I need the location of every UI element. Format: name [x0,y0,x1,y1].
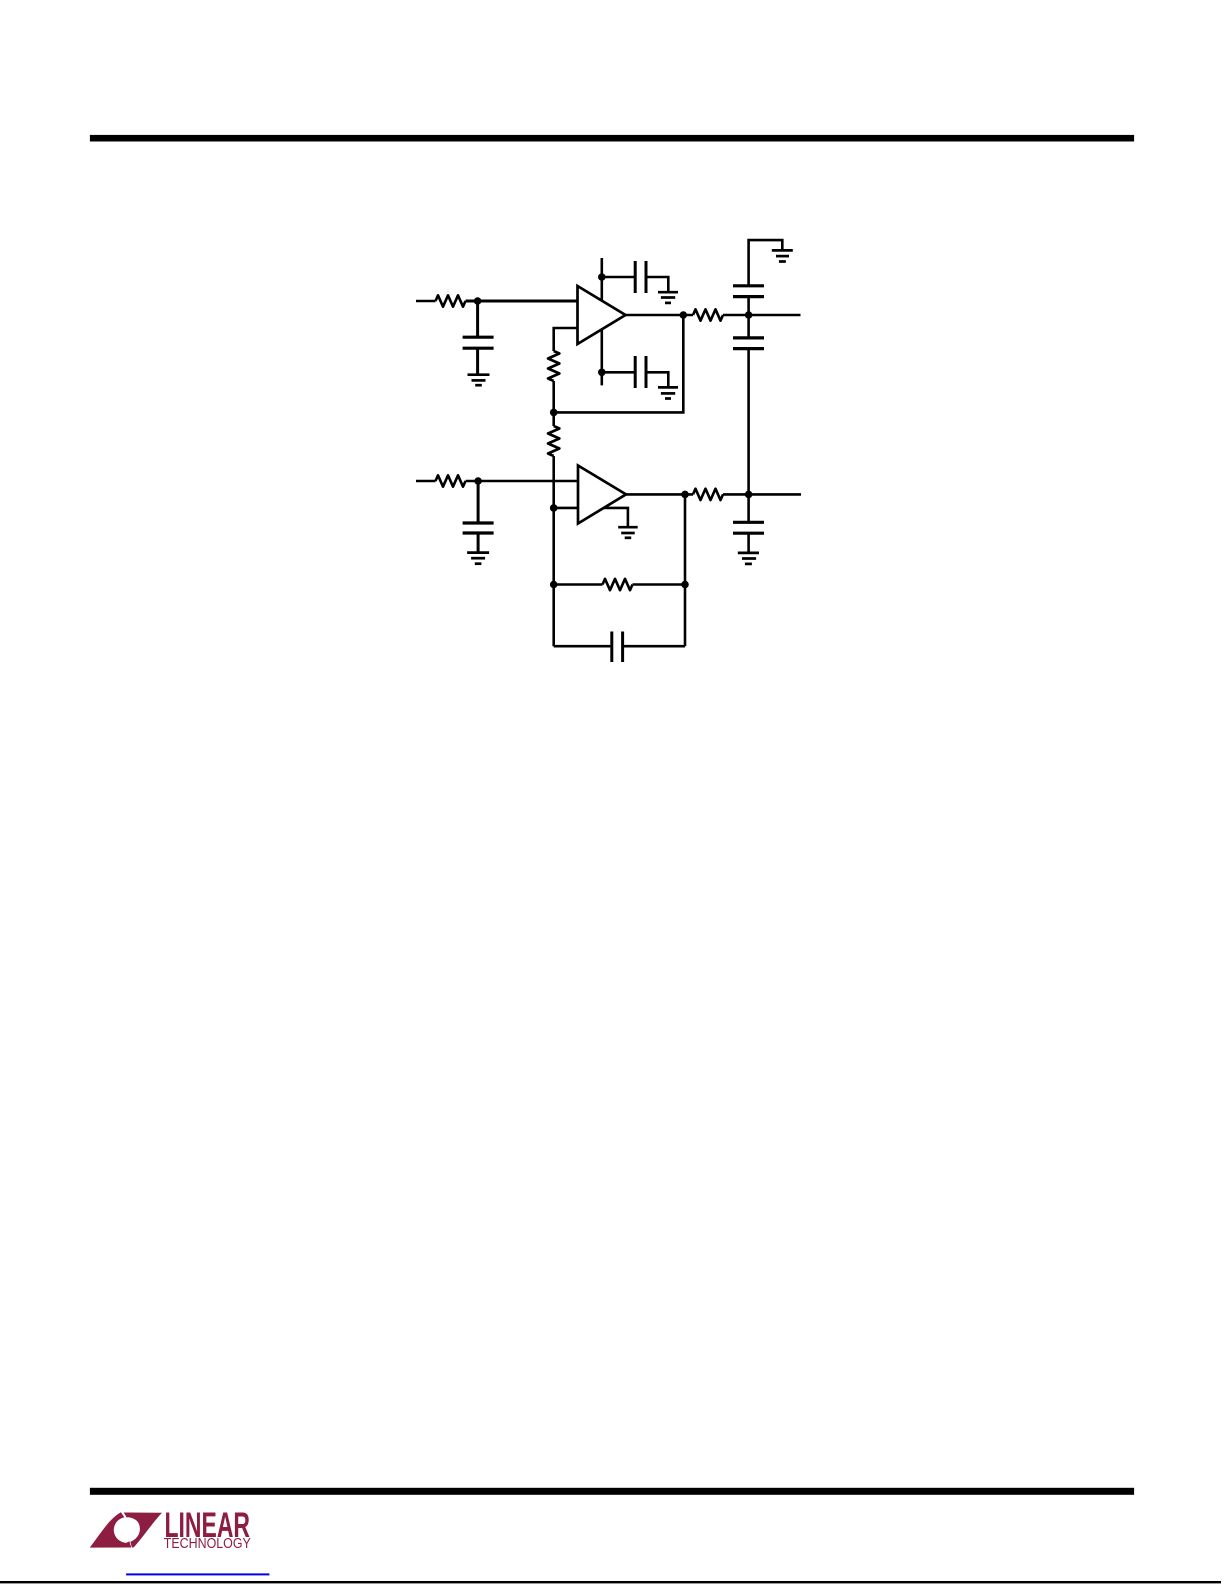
wire supply rail V+ to V- through U1 [600,258,603,385]
resistor R1 [436,295,466,306]
wire node B vertical run [552,456,555,646]
bottom hairline [0,1581,1221,1583]
ground G5 [467,553,489,564]
ground G7 [738,553,759,564]
resistor R2 [548,351,559,381]
wire to U2 noninverting input [466,480,579,483]
node U2 inverting junction [550,504,558,512]
capacitor C7 [733,494,764,553]
node U2 output [681,491,689,499]
wire U1 output [626,314,694,317]
ground G3 [658,387,678,398]
node U1 output [680,311,688,319]
node IN2 junction [474,477,482,485]
node V+ bypass [598,273,606,281]
node IN1 junction [474,297,482,305]
wire U2 inverting input to ground tap [554,508,628,526]
svg-text:TECHNOLOGY: TECHNOLOGY [164,1536,251,1552]
resistor R5 [436,475,466,486]
resistor R3 [693,309,723,320]
node FB1 junction [550,409,558,417]
wire input lead IN2 [416,480,436,483]
link underline [126,1573,269,1575]
op-amp U1 [578,286,626,344]
capacitor C2 bypass [602,261,669,293]
op-amp U2 [578,466,626,524]
logo LT mark [90,1512,162,1547]
resistor R7 [603,579,633,590]
wire output terminal VOUT1 [749,314,801,317]
wire R6 to node OUT2 [723,493,749,496]
wire U2 output [626,493,693,496]
wire U1 inverting input to feedback node [554,328,578,351]
wire R2 to node FB1 [552,381,555,412]
wire R3 to node OUT1 [723,314,749,317]
wire feedback from output to node FB1 [554,315,684,412]
capacitor C4 [733,240,782,315]
node OUT1 junction [745,311,753,319]
ground G1 [468,375,490,386]
ground G2 [658,292,678,303]
node R7 left junction [550,581,558,589]
node OUT2 junction [745,491,753,499]
node V- bypass [598,369,606,377]
node R7 right junction [681,581,689,589]
resistor R6 [693,489,723,500]
capacitor C3 bypass [602,356,669,388]
bottom rule [90,1488,1134,1495]
wire input lead IN1 [416,300,436,303]
wire R7 row left [554,583,603,586]
capacitor C8 [554,632,685,663]
wire output terminal VOUT2 [749,493,801,496]
capacitor C5 [733,315,764,494]
ground G4 [772,250,793,261]
wire R7 row right [633,583,686,586]
resistor R4 [548,412,559,456]
ground G6 [618,527,638,538]
capacitor C6 [463,481,494,553]
top rule [90,135,1134,142]
wire feedback vertical from OUT2 [684,494,687,646]
capacitor C1 [463,301,494,375]
wire to U1 noninverting input [466,300,578,303]
node dots [474,273,753,588]
